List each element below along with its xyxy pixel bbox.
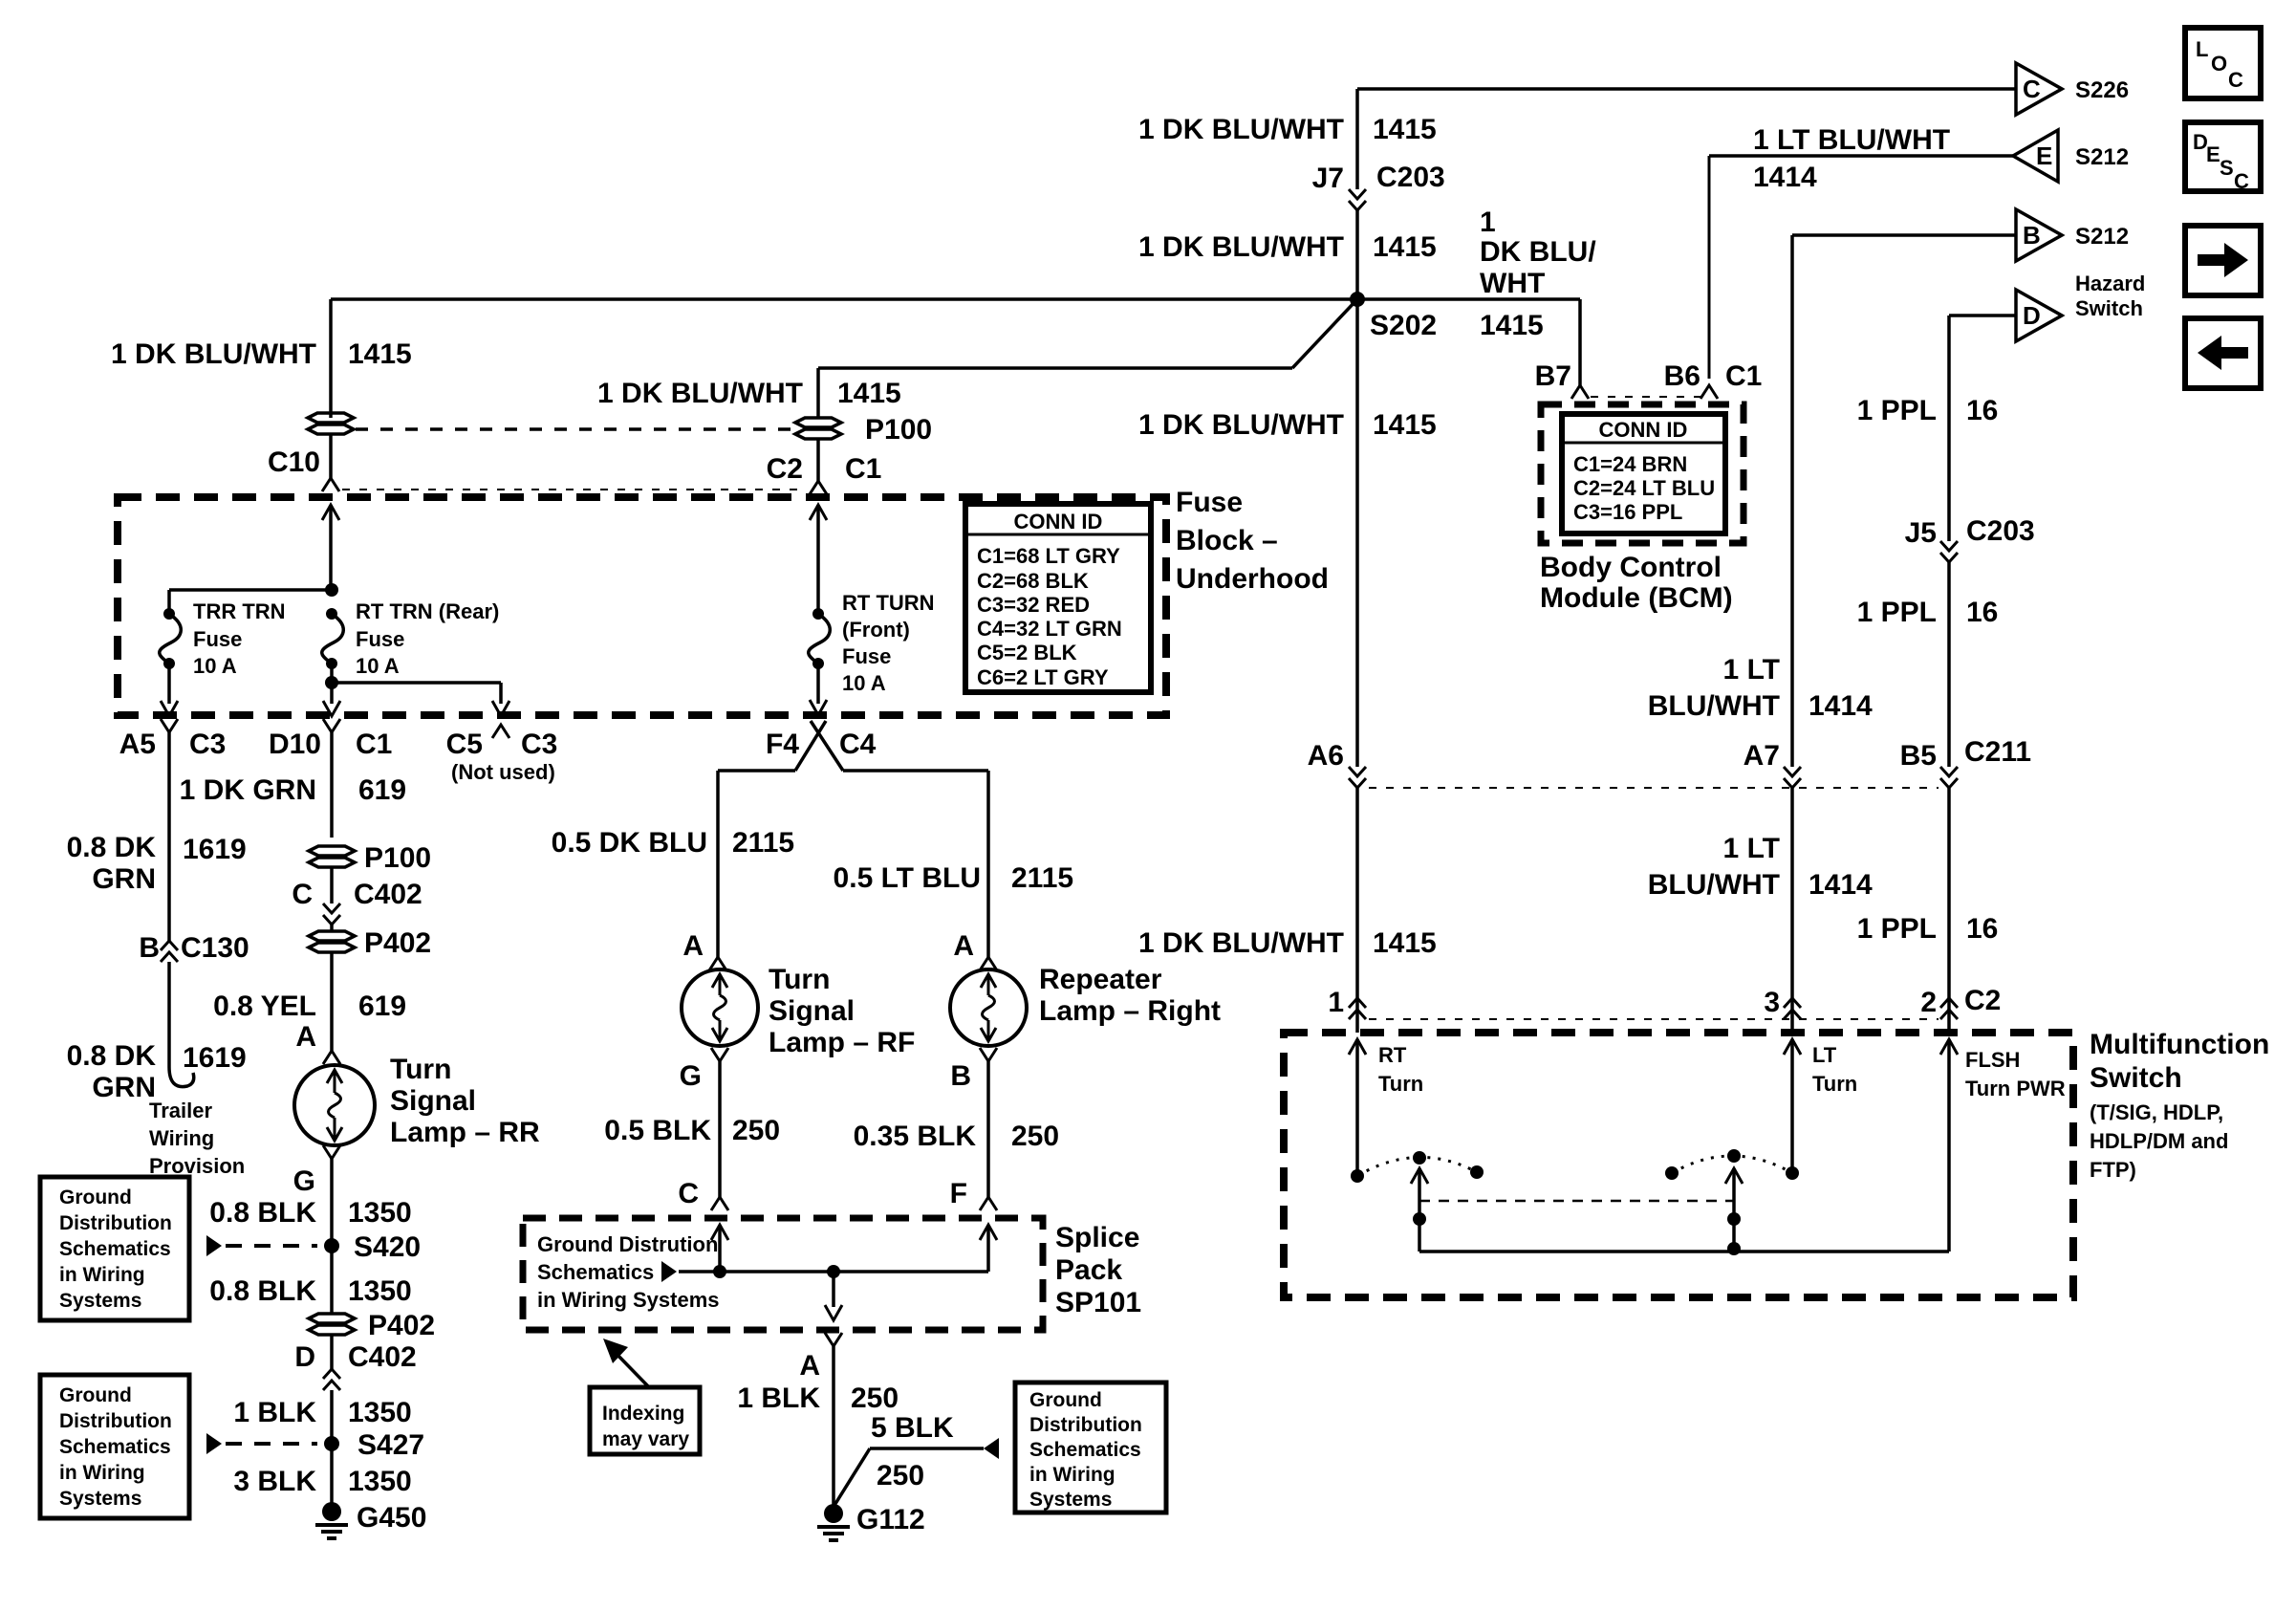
- wire 1415 vertical to C203: [1355, 89, 1359, 189]
- legend box DESC: [2185, 122, 2261, 191]
- lamp terminal G: [323, 1145, 340, 1159]
- svg-text:A5: A5: [119, 729, 156, 760]
- svg-text:Systems: Systems: [59, 1488, 141, 1510]
- svg-text:10 A: 10 A: [842, 671, 886, 695]
- svg-text:1 PPL: 1 PPL: [1857, 597, 1937, 628]
- svg-text:C3: C3: [189, 729, 226, 760]
- wire 1415 drop to C10: [329, 299, 333, 418]
- wire RT TURN Front fuse to F4 exit: [816, 664, 820, 704]
- svg-text:C2=68 BLK: C2=68 BLK: [977, 569, 1089, 593]
- wire RT TRN fuse to D10 exit: [330, 664, 334, 704]
- splice entry arrow C: [711, 1225, 728, 1240]
- svg-text:C5=2 BLK: C5=2 BLK: [977, 641, 1077, 664]
- connector C211 cavity B5: [1940, 767, 1958, 776]
- ground distribution reference arrow to S427: [206, 1433, 222, 1454]
- svg-text:0.5 LT BLU: 0.5 LT BLU: [834, 862, 981, 894]
- svg-text:Turn: Turn: [1378, 1072, 1423, 1096]
- svg-text:Fuse: Fuse: [842, 644, 891, 668]
- svg-text:B5: B5: [1900, 740, 1937, 772]
- svg-text:Fuse: Fuse: [193, 627, 242, 651]
- svg-text:Fuse: Fuse: [356, 627, 404, 651]
- svg-text:1: 1: [1328, 987, 1344, 1018]
- wire S202 diagonal to P100 branch: [1292, 299, 1357, 368]
- connector C4 crossover F4: [811, 721, 843, 771]
- svg-text:G: G: [293, 1165, 315, 1197]
- wire TRR TRN fuse to A5 exit: [167, 664, 171, 704]
- svg-text:TRR TRN: TRR TRN: [193, 599, 286, 623]
- svg-text:2115: 2115: [732, 827, 794, 859]
- wire branch to TRR TRN fuse: [169, 588, 332, 592]
- svg-text:1 DK BLU/WHT: 1 DK BLU/WHT: [111, 338, 316, 370]
- wire 1350 S420 to P402: [330, 1246, 334, 1314]
- connector pin 2 C2: [1940, 1010, 1958, 1019]
- svg-text:1415: 1415: [1480, 310, 1544, 341]
- svg-text:C211: C211: [1964, 736, 2031, 768]
- svg-text:250: 250: [877, 1460, 924, 1491]
- svg-text:1 DK BLU/WHT: 1 DK BLU/WHT: [1138, 409, 1344, 441]
- wire 1415 C203 to S202: [1355, 210, 1359, 299]
- svg-text:RT: RT: [1378, 1043, 1407, 1067]
- svg-text:Systems: Systems: [1029, 1489, 1112, 1511]
- wire 250 repeater to splice: [986, 1061, 990, 1197]
- grommet P100 left: [308, 413, 354, 423]
- svg-text:C203: C203: [1376, 162, 1445, 193]
- svg-text:10 A: 10 A: [356, 654, 400, 678]
- svg-text:Distribution: Distribution: [59, 1212, 172, 1234]
- svg-text:1350: 1350: [348, 1397, 412, 1428]
- svg-text:1350: 1350: [348, 1197, 412, 1229]
- svg-text:GRN: GRN: [92, 863, 156, 895]
- wire 619 P402 to lamp: [330, 952, 334, 1051]
- connector B7 fork: [1571, 385, 1589, 399]
- svg-text:Turn PWR: Turn PWR: [1965, 1077, 2066, 1100]
- svg-text:Schematics: Schematics: [59, 1436, 171, 1458]
- wire 16 hazard to J5: [1947, 316, 1951, 541]
- svg-text:GRN: GRN: [92, 1072, 156, 1103]
- svg-text:(Front): (Front): [842, 618, 910, 642]
- wire into C1: [816, 439, 820, 481]
- svg-text:Switch: Switch: [2075, 296, 2143, 320]
- svg-text:Splice: Splice: [1055, 1222, 1139, 1253]
- svg-text:16: 16: [1966, 395, 1998, 426]
- svg-text:Module (BCM): Module (BCM): [1540, 582, 1733, 614]
- svg-text:C3=16 PPL: C3=16 PPL: [1573, 500, 1682, 524]
- connector triangle B to S212: [2016, 209, 2062, 261]
- connector C203 cavity J7: [1349, 189, 1366, 199]
- svg-text:16: 16: [1966, 597, 1998, 628]
- wire 1350 S427 to G450: [330, 1444, 334, 1503]
- svg-text:Multifunction: Multifunction: [2090, 1029, 2269, 1060]
- svg-text:250: 250: [1011, 1121, 1059, 1152]
- svg-text:P402: P402: [368, 1310, 435, 1341]
- svg-text:DK BLU/: DK BLU/: [1480, 236, 1596, 268]
- svg-text:B7: B7: [1535, 360, 1571, 392]
- svg-text:S: S: [2220, 156, 2234, 180]
- svg-text:250: 250: [732, 1115, 780, 1146]
- turn signal lamp RF: [682, 969, 758, 1046]
- svg-text:FLSH: FLSH: [1965, 1048, 2020, 1072]
- svg-text:C1=24 BRN: C1=24 BRN: [1573, 452, 1687, 476]
- svg-text:A: A: [799, 1350, 820, 1382]
- svg-text:1 LT BLU/WHT: 1 LT BLU/WHT: [1753, 124, 1950, 156]
- svg-text:Underhood: Underhood: [1176, 563, 1329, 595]
- svg-text:1 DK GRN: 1 DK GRN: [180, 774, 316, 806]
- svg-text:C2: C2: [1964, 985, 2001, 1016]
- svg-text:1415: 1415: [837, 378, 901, 409]
- wire 5 BLK 250 to ground distribution: [834, 1448, 870, 1507]
- svg-text:J7: J7: [1312, 163, 1344, 194]
- svg-text:Schematics: Schematics: [1029, 1439, 1141, 1461]
- svg-text:C: C: [2228, 68, 2243, 92]
- splice pack dashed box: [523, 1218, 1043, 1330]
- svg-text:S212: S212: [2075, 224, 2129, 250]
- repeater lamp terminal A: [980, 957, 997, 970]
- ground G112: [824, 1504, 843, 1523]
- switch FLSH Turn PWR input: [1940, 1039, 1958, 1055]
- wire main 1415 horizontal: [331, 297, 1357, 301]
- svg-text:B: B: [950, 1060, 971, 1092]
- repeater lamp right: [950, 969, 1027, 1046]
- connector triangle E from S212: [2013, 130, 2058, 182]
- svg-text:B: B: [2023, 221, 2041, 250]
- svg-text:HDLP/DM and: HDLP/DM and: [2090, 1129, 2228, 1153]
- svg-text:Schematics: Schematics: [59, 1238, 171, 1260]
- svg-text:0.8 BLK: 0.8 BLK: [209, 1197, 316, 1229]
- svg-text:S212: S212: [2075, 144, 2129, 170]
- svg-text:1415: 1415: [1373, 231, 1437, 263]
- grommet dashed link: [356, 427, 797, 431]
- svg-text:(T/SIG, HDLP,: (T/SIG, HDLP,: [2090, 1100, 2223, 1124]
- svg-text:1414: 1414: [1809, 869, 1873, 901]
- splice bus entry arrow: [661, 1261, 677, 1282]
- svg-text:Turn: Turn: [1812, 1072, 1857, 1096]
- svg-text:Switch: Switch: [2090, 1062, 2182, 1094]
- svg-text:3: 3: [1764, 987, 1780, 1018]
- wire 250 lamp RF to splice: [718, 1061, 722, 1197]
- svg-text:1619: 1619: [183, 1042, 247, 1074]
- svg-text:1350: 1350: [348, 1275, 412, 1307]
- svg-text:L: L: [2196, 37, 2208, 61]
- svg-text:0.8 DK: 0.8 DK: [67, 832, 157, 863]
- wire P402 to C402 D: [330, 1335, 334, 1369]
- ground distribution reference arrow to S420: [206, 1235, 222, 1256]
- fuse block entry arrow C1: [810, 505, 827, 520]
- svg-text:S420: S420: [354, 1231, 421, 1263]
- svg-text:may vary: may vary: [602, 1428, 689, 1450]
- svg-text:O: O: [2211, 52, 2227, 76]
- svg-text:Lamp – Right: Lamp – Right: [1039, 995, 1221, 1027]
- connector C2 mating line: [1369, 1018, 1939, 1020]
- legend box left-turn arrow: [2185, 318, 2261, 388]
- svg-text:C1: C1: [356, 729, 392, 760]
- svg-text:Turn: Turn: [769, 964, 830, 995]
- fuse block entry arrow C10: [322, 505, 339, 520]
- svg-text:1414: 1414: [1753, 162, 1817, 193]
- svg-text:16: 16: [1966, 913, 1998, 945]
- connector C211 cavity A7: [1784, 767, 1801, 776]
- wire S202 to B7 branch: [1357, 297, 1580, 301]
- grommet P100 lower: [309, 846, 355, 856]
- connector C211 cavity A6: [1349, 767, 1366, 776]
- svg-text:1619: 1619: [183, 834, 247, 865]
- svg-text:Hazard: Hazard: [2075, 272, 2145, 295]
- connector pin 3: [1784, 1010, 1801, 1019]
- wire C402 to P402: [330, 925, 334, 931]
- junction at RT TRN fuse top: [325, 583, 338, 597]
- splice junction C: [713, 1265, 726, 1278]
- splice junction A: [827, 1265, 840, 1278]
- svg-text:D10: D10: [269, 729, 321, 760]
- wire 1414 S212 to A7: [1790, 235, 1794, 767]
- wire 2115 left branch: [718, 769, 795, 773]
- svg-text:C2=24 LT BLU: C2=24 LT BLU: [1573, 476, 1715, 500]
- svg-text:SP101: SP101: [1055, 1287, 1141, 1318]
- connector C402 cavity C: [323, 903, 340, 913]
- connector C1 fork: [810, 481, 827, 494]
- svg-text:0.5 DK BLU: 0.5 DK BLU: [552, 827, 707, 859]
- svg-text:1 PPL: 1 PPL: [1857, 395, 1937, 426]
- connector C211 mating line: [1369, 787, 1939, 789]
- indexing arrow: [614, 1351, 649, 1387]
- svg-text:2: 2: [1920, 987, 1937, 1018]
- connector mating line BCM: [1591, 396, 1700, 398]
- connector C3 fork A5: [161, 719, 178, 732]
- svg-text:Lamp – RR: Lamp – RR: [390, 1117, 540, 1148]
- svg-text:C10: C10: [268, 446, 320, 478]
- wire 1415 S202 to A6: [1355, 299, 1359, 767]
- svg-text:C: C: [292, 879, 313, 910]
- svg-text:Systems: Systems: [59, 1290, 141, 1312]
- svg-text:Pack: Pack: [1055, 1254, 1122, 1286]
- svg-text:619: 619: [358, 774, 406, 806]
- junction to C5 branch: [325, 676, 338, 689]
- wire to S226 reference (1415 circuit): [1357, 87, 2016, 91]
- svg-text:C4: C4: [839, 729, 877, 760]
- svg-text:A7: A7: [1744, 740, 1780, 772]
- svg-text:F: F: [950, 1178, 967, 1209]
- fuse block dashed box: [118, 497, 1166, 715]
- indexing may vary box: [590, 1387, 700, 1454]
- ground distribution schematics box upper: [40, 1177, 189, 1320]
- svg-text:1 DK BLU/WHT: 1 DK BLU/WHT: [597, 378, 803, 409]
- svg-text:1 DK BLU/WHT: 1 DK BLU/WHT: [1138, 927, 1344, 959]
- svg-text:J5: J5: [1905, 517, 1937, 549]
- switch LT wiper: [1725, 1168, 1743, 1184]
- svg-text:S202: S202: [1370, 310, 1437, 341]
- svg-text:1414: 1414: [1809, 690, 1873, 722]
- svg-text:P100: P100: [865, 414, 932, 446]
- wire to S212 reference B: [1792, 233, 2016, 237]
- svg-text:3 BLK: 3 BLK: [233, 1466, 316, 1497]
- svg-text:1415: 1415: [1373, 114, 1437, 145]
- wire 1414 from S212 reference E: [1709, 154, 2013, 158]
- splice terminal A fork: [825, 1333, 842, 1346]
- svg-text:Wiring: Wiring: [149, 1126, 214, 1150]
- svg-text:1 DK BLU/WHT: 1 DK BLU/WHT: [1138, 114, 1344, 145]
- svg-text:B: B: [139, 932, 160, 964]
- svg-text:B6: B6: [1664, 360, 1700, 392]
- lamp terminal A: [323, 1051, 340, 1064]
- svg-text:C130: C130: [181, 932, 249, 964]
- svg-text:CONN ID: CONN ID: [1599, 418, 1688, 442]
- splice S420: [324, 1238, 339, 1253]
- switch RT wiper: [1411, 1168, 1428, 1184]
- svg-text:Ground Distrution: Ground Distrution: [537, 1232, 718, 1256]
- connector triangle C to S226: [2016, 63, 2062, 115]
- svg-text:RT TRN (Rear): RT TRN (Rear): [356, 599, 499, 623]
- splice terminal F: [980, 1197, 997, 1210]
- svg-text:RT TURN: RT TURN: [842, 591, 935, 615]
- svg-text:C1: C1: [1725, 360, 1762, 392]
- svg-text:C: C: [678, 1178, 699, 1209]
- svg-text:1 LT: 1 LT: [1723, 833, 1780, 864]
- svg-text:Repeater: Repeater: [1039, 964, 1162, 995]
- svg-text:BLU/WHT: BLU/WHT: [1648, 690, 1780, 722]
- wire 250 to G112: [832, 1346, 835, 1507]
- ground G450: [322, 1502, 341, 1521]
- svg-text:F4: F4: [766, 729, 799, 760]
- wire into C10: [329, 434, 333, 478]
- svg-text:C203: C203: [1966, 515, 2035, 547]
- svg-text:(Not used): (Not used): [451, 760, 555, 784]
- svg-text:Ground: Ground: [59, 1384, 132, 1406]
- svg-text:G: G: [680, 1060, 702, 1092]
- svg-text:1 BLK: 1 BLK: [233, 1397, 316, 1428]
- BCM CONN ID table: [1562, 414, 1725, 533]
- svg-text:Block –: Block –: [1176, 525, 1278, 556]
- svg-text:E: E: [2206, 142, 2220, 166]
- turn signal lamp RR: [294, 1065, 375, 1145]
- svg-text:G450: G450: [357, 1502, 426, 1534]
- connector B6 C1 fork: [1700, 385, 1718, 399]
- switch linkage dashed: [1419, 1200, 1734, 1203]
- svg-text:0.5 BLK: 0.5 BLK: [604, 1115, 711, 1146]
- svg-text:C1: C1: [845, 453, 881, 485]
- svg-text:0.8 YEL: 0.8 YEL: [213, 991, 316, 1022]
- svg-text:WHT: WHT: [1480, 268, 1545, 299]
- switch LT Turn input: [1784, 1039, 1801, 1055]
- switch RT Turn input: [1349, 1039, 1366, 1055]
- svg-text:1415: 1415: [348, 338, 412, 370]
- svg-text:Turn: Turn: [390, 1054, 451, 1085]
- svg-text:Distribution: Distribution: [59, 1410, 172, 1432]
- ground distribution schematics box right: [1015, 1382, 1166, 1513]
- svg-text:C: C: [2234, 169, 2249, 193]
- svg-text:Provision: Provision: [149, 1154, 245, 1178]
- wire 16 J5 to B5: [1947, 562, 1951, 767]
- splice entry arrow F: [980, 1225, 997, 1240]
- svg-text:Signal: Signal: [390, 1085, 476, 1117]
- wire 1619 A5 to C130: [167, 732, 171, 941]
- lamp RF terminal A: [709, 957, 726, 970]
- svg-text:1 DK BLU/WHT: 1 DK BLU/WHT: [1138, 231, 1344, 263]
- svg-text:Distribution: Distribution: [1029, 1414, 1142, 1436]
- svg-text:Ground: Ground: [59, 1186, 132, 1208]
- connector C5 C3 not used: [492, 725, 509, 738]
- svg-text:S226: S226: [2075, 77, 2129, 103]
- ground distribution schematics box lower: [40, 1375, 189, 1518]
- wire 1619 C130 to trailer provision: [167, 962, 171, 1067]
- svg-text:250: 250: [851, 1382, 899, 1414]
- svg-text:Signal: Signal: [769, 995, 855, 1027]
- svg-text:Ground: Ground: [1029, 1389, 1102, 1411]
- repeater lamp terminal B: [980, 1048, 997, 1061]
- multifunction switch dashed box: [1284, 1033, 2073, 1297]
- connector pin 1: [1349, 1010, 1366, 1019]
- switch RT contact: [1351, 1169, 1364, 1183]
- svg-text:C402: C402: [348, 1341, 417, 1373]
- svg-text:5 BLK: 5 BLK: [871, 1412, 954, 1444]
- wire P100 branch horizontal: [818, 366, 1292, 370]
- svg-text:C1=68 LT GRY: C1=68 LT GRY: [977, 544, 1120, 568]
- legend box right-turn arrow: [2185, 226, 2261, 295]
- svg-text:P402: P402: [364, 927, 431, 959]
- svg-text:C6=2 LT GRY: C6=2 LT GRY: [977, 665, 1109, 689]
- fuse block CONN ID table: [965, 504, 1151, 692]
- svg-text:in Wiring: in Wiring: [59, 1264, 145, 1286]
- svg-text:Lamp – RF: Lamp – RF: [769, 1027, 915, 1058]
- grommet P402: [309, 931, 355, 941]
- svg-text:1 BLK: 1 BLK: [737, 1382, 820, 1414]
- switch common bus: [1419, 1250, 1949, 1253]
- svg-text:A: A: [682, 930, 704, 962]
- svg-text:Indexing: Indexing: [602, 1403, 684, 1425]
- svg-text:C3: C3: [521, 729, 557, 760]
- svg-text:CONN ID: CONN ID: [1014, 510, 1103, 533]
- svg-text:0.8 BLK: 0.8 BLK: [209, 1275, 316, 1307]
- svg-text:C: C: [2023, 75, 2041, 103]
- connector C130: [161, 952, 178, 962]
- svg-text:Body Control: Body Control: [1540, 552, 1722, 583]
- svg-text:in Wiring: in Wiring: [1029, 1464, 1116, 1486]
- wire 1415 A6 to multifunction switch: [1355, 788, 1359, 1033]
- svg-text:Trailer: Trailer: [149, 1099, 212, 1122]
- svg-text:P100: P100: [364, 842, 431, 874]
- wire 1350 lamp to S420: [330, 1159, 334, 1246]
- svg-text:C4=32 LT GRN: C4=32 LT GRN: [977, 617, 1122, 641]
- splice bus wire: [679, 1270, 988, 1274]
- svg-text:0.35 BLK: 0.35 BLK: [854, 1121, 977, 1152]
- svg-text:1 PPL: 1 PPL: [1857, 913, 1937, 945]
- svg-text:G112: G112: [856, 1504, 925, 1535]
- svg-text:C402: C402: [354, 879, 422, 910]
- svg-text:A: A: [295, 1021, 316, 1053]
- svg-text:A: A: [953, 930, 974, 962]
- svg-text:FTP): FTP): [2090, 1158, 2136, 1182]
- svg-text:2115: 2115: [1011, 862, 1073, 894]
- lamp RF terminal G: [711, 1048, 728, 1061]
- connector triangle D to Hazard Switch: [2016, 290, 2062, 341]
- svg-text:C2: C2: [767, 453, 803, 485]
- svg-text:A6: A6: [1308, 740, 1344, 772]
- svg-text:Schematics: Schematics: [537, 1260, 654, 1284]
- connector C1 fork D10: [323, 719, 340, 732]
- svg-text:LT: LT: [1812, 1043, 1837, 1067]
- svg-text:1415: 1415: [1373, 409, 1437, 441]
- wire 2115 right branch: [843, 769, 988, 773]
- splice terminal C: [711, 1197, 728, 1210]
- wire 619 D10 to P100: [330, 732, 334, 838]
- wire to Hazard Switch: [1949, 314, 2016, 317]
- wire 1415 drop to P100: [816, 368, 820, 418]
- svg-text:1415: 1415: [1373, 927, 1437, 959]
- wire 16 B5 to multifunction switch: [1947, 788, 1951, 1033]
- svg-text:C3=32 RED: C3=32 RED: [977, 593, 1090, 617]
- grommet P402 lower: [309, 1314, 355, 1323]
- wire 1414 A7 to multifunction switch: [1790, 788, 1794, 1033]
- svg-text:in Wiring: in Wiring: [59, 1462, 145, 1484]
- svg-text:10 A: 10 A: [193, 654, 237, 678]
